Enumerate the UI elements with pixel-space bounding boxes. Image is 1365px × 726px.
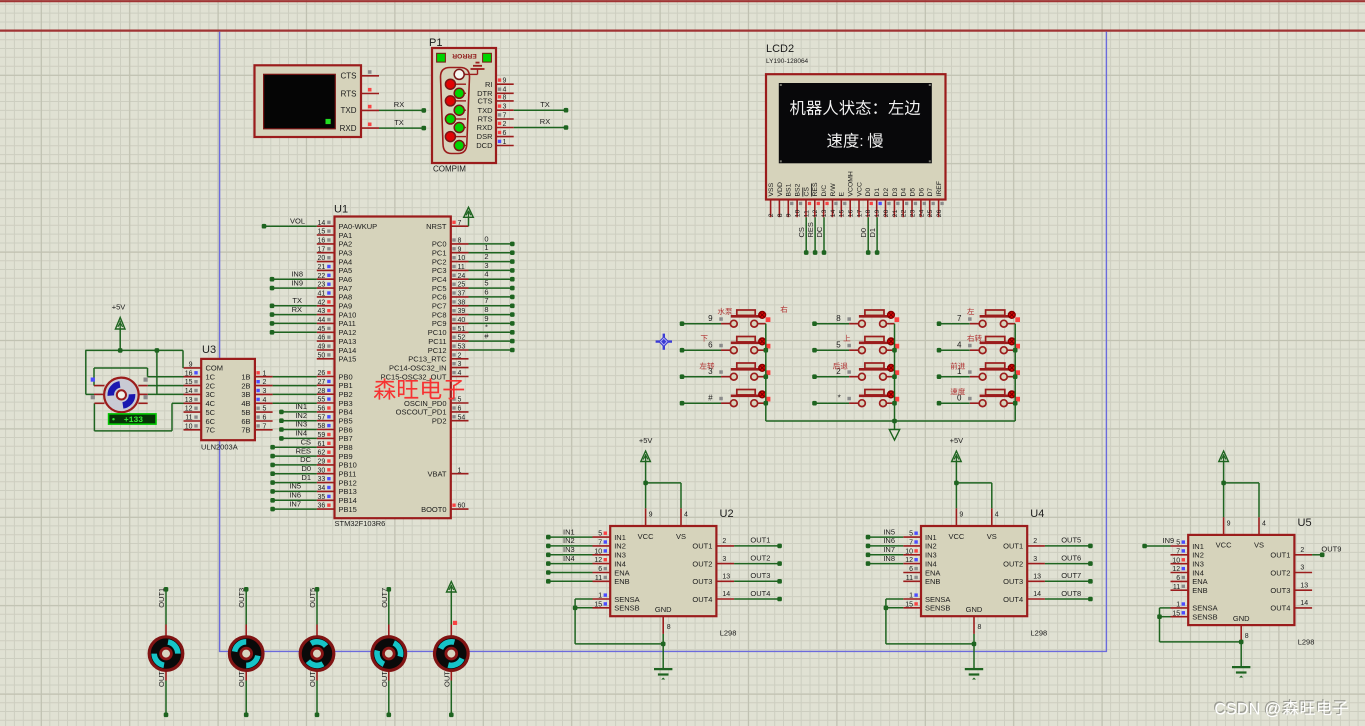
blue cursor crosshair — [656, 334, 672, 350]
svg-text:PA3: PA3 — [339, 249, 353, 258]
svg-text:IN2: IN2 — [295, 411, 307, 420]
svg-text:IN2: IN2 — [925, 542, 937, 551]
svg-text:OUT6: OUT6 — [1061, 553, 1081, 562]
svg-text:IN3: IN3 — [1192, 560, 1204, 569]
svg-text:4: 4 — [684, 512, 688, 519]
svg-text:PA12: PA12 — [339, 328, 357, 337]
svg-text:RXD: RXD — [340, 124, 357, 133]
wire U2 IN4 net IN4 — [546, 554, 593, 566]
wire U4 IN3 net IN7 — [866, 545, 904, 557]
U1 pin PA3 — [317, 246, 352, 257]
svg-text:PB8: PB8 — [339, 443, 353, 452]
svg-text:CSDN @: CSDN @ — [1214, 700, 1281, 718]
svg-text:4: 4 — [1262, 520, 1266, 527]
svg-text:4: 4 — [263, 397, 267, 404]
svg-text:10: 10 — [458, 255, 466, 262]
svg-text:IN4: IN4 — [295, 429, 307, 438]
U1 pin PC15-OSC32_OUT — [381, 370, 469, 381]
svg-text:54: 54 — [458, 414, 466, 421]
LCD2 pin BS2 — [795, 183, 803, 217]
wire U5 IN1 net IN9 — [1142, 536, 1174, 548]
LCD2 text line1 — [790, 100, 920, 115]
svg-text:LY190-128064: LY190-128064 — [766, 58, 809, 65]
svg-text:14: 14 — [318, 220, 326, 227]
U5 pin SENSA — [1171, 602, 1218, 613]
svg-text:3: 3 — [484, 261, 488, 270]
U5 pin IN4 — [1171, 566, 1204, 577]
U4 pin ENB — [903, 575, 940, 586]
svg-text:RX: RX — [394, 100, 404, 109]
svg-text:D3: D3 — [892, 188, 899, 197]
U4 pin IN4 — [903, 557, 936, 568]
svg-text:18: 18 — [865, 209, 872, 217]
svg-text:3: 3 — [263, 388, 267, 395]
svg-text:IN6: IN6 — [883, 536, 895, 545]
LCD2 pin E — [839, 192, 847, 218]
svg-text:2: 2 — [722, 538, 726, 545]
svg-text:PA11: PA11 — [339, 319, 356, 328]
svg-text:5C: 5C — [206, 408, 216, 417]
svg-text:CTS: CTS — [478, 97, 493, 106]
U1 pin PA4 — [317, 255, 352, 266]
svg-text:6B: 6B — [241, 417, 250, 426]
svg-text:DSR: DSR — [477, 132, 493, 141]
wire P1 RXD to net RX — [514, 117, 569, 130]
svg-text:U4: U4 — [1030, 508, 1044, 520]
svg-text:8: 8 — [777, 213, 784, 217]
U1 pin PC11 — [428, 335, 468, 346]
svg-text:13: 13 — [722, 574, 730, 581]
LCD2 pin D6 — [918, 188, 926, 218]
svg-text:PB10: PB10 — [339, 461, 357, 470]
U1 pin PB4 — [317, 406, 353, 417]
svg-text:TX: TX — [394, 118, 404, 127]
svg-text:OUT4: OUT4 — [1003, 595, 1023, 604]
svg-text:6: 6 — [263, 415, 267, 422]
U4 body L298 — [921, 526, 1027, 616]
svg-text:50: 50 — [318, 352, 326, 359]
U3 pin 4C — [184, 397, 216, 408]
svg-text:24: 24 — [918, 209, 925, 217]
wire LCD2 DC down — [815, 217, 827, 255]
svg-text:IN3: IN3 — [563, 545, 575, 554]
svg-text:1: 1 — [503, 139, 507, 146]
U1 pin OSCIN_PD0 — [404, 397, 469, 408]
U1 pin PC14-OSC32_IN — [389, 361, 469, 372]
wire LCD2 CS down — [797, 217, 809, 255]
svg-text:PC3: PC3 — [432, 266, 447, 275]
P1 DB9 connector outline — [441, 68, 470, 154]
svg-text:52: 52 — [458, 335, 466, 342]
wire U2 IN2 net IN2 — [546, 536, 593, 548]
svg-text:OUT3: OUT3 — [692, 577, 712, 586]
svg-text:2: 2 — [263, 379, 267, 386]
motor M5 — [431, 582, 472, 718]
svg-text:13: 13 — [1300, 582, 1308, 589]
svg-text:U1: U1 — [334, 204, 348, 216]
motor M3 — [293, 587, 340, 717]
svg-text:57: 57 — [318, 414, 326, 421]
P1 DB9 pin circle 1 — [454, 69, 466, 79]
svg-text:26: 26 — [936, 209, 943, 217]
svg-text:PD2: PD2 — [432, 417, 447, 426]
U1 pin PD2 — [432, 414, 469, 425]
P1 pin DSR — [477, 130, 514, 141]
wire U1 PB13 net IN5 — [270, 482, 317, 494]
LCD2 pin R/W — [830, 183, 838, 217]
U3 pin COM — [184, 362, 224, 373]
wire terminal RXD to net TX — [379, 118, 426, 131]
U1 pin PB9 — [317, 450, 353, 461]
svg-text:7: 7 — [458, 220, 462, 227]
svg-text:0: 0 — [484, 234, 488, 243]
svg-text:6: 6 — [1176, 575, 1180, 582]
svg-text:20: 20 — [883, 209, 890, 217]
svg-text:VS: VS — [676, 532, 686, 541]
wire U1 PA11 net — [270, 321, 317, 326]
svg-text:16: 16 — [318, 238, 326, 245]
svg-text:1: 1 — [1176, 602, 1180, 609]
svg-text:42: 42 — [318, 299, 326, 306]
LCD2 pin IREF — [936, 181, 944, 217]
U1 pin PC3 — [432, 264, 469, 275]
svg-text:7: 7 — [957, 314, 962, 323]
U3 pin 2C — [184, 379, 216, 390]
svg-text:PA14: PA14 — [339, 346, 357, 355]
wire U1 PB11 net D0 — [270, 464, 317, 476]
svg-text:PB15: PB15 — [339, 505, 357, 514]
svg-text:PB9: PB9 — [339, 452, 353, 461]
svg-text:L298: L298 — [1298, 637, 1315, 646]
keypad column 3 vertical wire — [1013, 324, 1018, 421]
U4 pin SENSB — [903, 601, 950, 612]
svg-text:2: 2 — [503, 121, 507, 128]
U5 pin OUT2 — [1270, 565, 1312, 578]
U5 +5V power terminal — [1219, 451, 1259, 517]
svg-text:17: 17 — [856, 209, 863, 217]
svg-text:+5V: +5V — [950, 436, 964, 445]
svg-text:PB7: PB7 — [339, 434, 353, 443]
keypad label 下 — [701, 335, 708, 341]
svg-text:ENA: ENA — [925, 568, 940, 577]
svg-text:5: 5 — [1176, 540, 1180, 547]
wire U2 SENS loop to ground — [573, 599, 663, 644]
svg-text:PA1: PA1 — [339, 231, 353, 240]
U1 pin PB14 — [317, 494, 357, 505]
wire U3 2B to U1 PB1 — [273, 385, 317, 387]
motor M1 — [149, 587, 183, 717]
U4 pin VS — [987, 508, 999, 541]
wire motor coil 4 to U3 4C — [94, 403, 183, 431]
P1 DB9 pin circle 3 — [454, 88, 466, 98]
svg-text:13: 13 — [1033, 574, 1041, 581]
U2 pin OUT3 — [692, 574, 734, 587]
svg-text:3: 3 — [1300, 565, 1304, 572]
svg-text:PC7: PC7 — [432, 302, 447, 311]
svg-text:11: 11 — [595, 575, 602, 582]
svg-text:23: 23 — [318, 282, 326, 289]
U1 pin PA15 — [317, 352, 356, 363]
svg-text:COMPIM: COMPIM — [433, 165, 466, 174]
svg-text:5B: 5B — [241, 408, 250, 417]
svg-text:CS: CS — [803, 187, 810, 197]
svg-text:25: 25 — [458, 282, 466, 289]
svg-text:U2: U2 — [720, 508, 734, 520]
svg-text:IN3: IN3 — [614, 551, 626, 560]
svg-text:9: 9 — [1227, 520, 1231, 527]
sheet border second red line — [0, 30, 1365, 32]
svg-text:11: 11 — [185, 415, 192, 422]
wire U1 PC6 to net 6 — [469, 287, 515, 299]
svg-text:9: 9 — [959, 512, 963, 519]
svg-text:IN1: IN1 — [1192, 542, 1204, 551]
LCD2 body — [766, 74, 946, 199]
svg-text:13: 13 — [821, 209, 828, 217]
U5 pin VS — [1254, 517, 1266, 550]
svg-text:PC14-OSC32_IN: PC14-OSC32_IN — [389, 363, 447, 372]
U1 pin PA9 — [317, 299, 352, 310]
svg-text:PC4: PC4 — [432, 275, 447, 284]
svg-text:PC2: PC2 — [432, 257, 447, 266]
svg-text:ULN2003A: ULN2003A — [201, 443, 238, 452]
svg-text:VSS: VSS — [768, 182, 775, 196]
svg-text:PB4: PB4 — [339, 408, 353, 417]
svg-text:5: 5 — [458, 397, 462, 404]
svg-text:OUT8: OUT8 — [1061, 589, 1081, 598]
svg-text:+5V: +5V — [112, 303, 126, 312]
svg-text:IN8: IN8 — [883, 554, 895, 563]
svg-text:PA8: PA8 — [339, 293, 353, 302]
svg-text:12: 12 — [594, 557, 602, 564]
svg-text:1: 1 — [598, 593, 602, 600]
svg-text:6: 6 — [909, 566, 913, 573]
svg-text:ENB: ENB — [1192, 586, 1207, 595]
svg-text:3C: 3C — [206, 390, 216, 399]
svg-text:SENSB: SENSB — [925, 604, 950, 613]
svg-text:7: 7 — [503, 112, 507, 119]
P1 pin DCD — [476, 139, 513, 150]
svg-text:GND: GND — [966, 605, 983, 614]
U1 pin NRST — [426, 220, 468, 231]
svg-text:25: 25 — [927, 209, 934, 217]
svg-text:15: 15 — [185, 379, 193, 386]
P1 pin CTS — [478, 94, 514, 105]
svg-text:22: 22 — [318, 273, 326, 280]
svg-text:RXD: RXD — [477, 123, 493, 132]
svg-text:PC0: PC0 — [432, 240, 447, 249]
U1 pin PB1 — [317, 379, 353, 390]
wire U1 PA10 RX — [270, 305, 317, 317]
keypad column 1 vertical wire — [764, 324, 769, 421]
U2 pin SENSA — [593, 593, 640, 604]
svg-text:9: 9 — [484, 314, 488, 323]
svg-text:3: 3 — [1033, 556, 1037, 563]
LCD2 pin CS — [803, 187, 811, 218]
wire U1 PB14 net IN6 — [270, 491, 317, 503]
U3 pin 7B — [241, 423, 272, 434]
U1 pin PB8 — [317, 441, 353, 452]
wire U1 PA9 TX — [270, 296, 317, 308]
U3 pin 5C — [184, 406, 216, 417]
svg-text:58: 58 — [318, 423, 326, 430]
svg-text:OUT3: OUT3 — [1270, 586, 1290, 595]
U3 pin 2B — [241, 379, 272, 390]
push button col1 row4 key # — [680, 390, 771, 407]
wire U1 PA0 VOL — [262, 216, 317, 228]
svg-text:14: 14 — [830, 209, 837, 217]
svg-text:2C: 2C — [206, 381, 216, 390]
svg-text:+5V: +5V — [639, 436, 653, 445]
svg-text:60: 60 — [458, 503, 466, 510]
U1 pin PB15 — [317, 503, 357, 514]
svg-text:D2: D2 — [883, 188, 890, 197]
keypad label 左转 — [700, 362, 715, 369]
svg-text:IN9: IN9 — [291, 278, 303, 287]
svg-text:OUT1: OUT1 — [1003, 542, 1023, 551]
wire U2 ENB net unnamed — [546, 579, 593, 584]
U1 pin PB10 — [317, 459, 357, 470]
wire U1 PB9 net RES — [270, 446, 317, 458]
CSDN watermark bottom right — [1213, 699, 1348, 718]
svg-text:DC: DC — [815, 226, 824, 237]
wire motor left loop — [86, 350, 94, 394]
U2 pin OUT1 — [692, 538, 734, 551]
svg-text:9: 9 — [503, 78, 507, 85]
push button col2 row1 key 8 — [812, 310, 899, 327]
wire U1 PA12 net — [270, 330, 317, 335]
U5 pin OUT1 — [1270, 547, 1312, 560]
wire terminal TXD to net RX — [379, 100, 426, 113]
U1 pin PB11 — [317, 467, 356, 478]
U2 pin IN4 — [593, 557, 626, 568]
svg-text:4: 4 — [484, 270, 488, 279]
svg-text:OUT3: OUT3 — [1003, 577, 1023, 586]
svg-text:34: 34 — [318, 485, 326, 492]
U2 body L298 — [610, 526, 716, 616]
svg-text:PA5: PA5 — [339, 266, 353, 275]
U1 pin PB7 — [317, 432, 353, 443]
wire U3 4B to U1 PB3 — [273, 402, 317, 404]
svg-text:15: 15 — [1172, 610, 1180, 617]
svg-text:OUT4: OUT4 — [750, 589, 770, 598]
svg-text:11: 11 — [803, 210, 810, 217]
svg-text:11: 11 — [906, 575, 913, 582]
svg-text:OUT1: OUT1 — [1270, 551, 1290, 560]
terminal pin TXD — [341, 105, 380, 115]
P1 DB9 pin circle 6 — [445, 114, 466, 124]
keypad bottom common wire — [766, 419, 1015, 424]
U3 body ULN2003A — [201, 359, 255, 440]
svg-text:2: 2 — [1300, 547, 1304, 554]
svg-text:PA2: PA2 — [339, 240, 353, 249]
svg-text:IN3: IN3 — [295, 420, 307, 429]
wire U4 OUT2 net OUT6 — [1045, 553, 1093, 565]
wire U1 PC1 to net 1 — [469, 243, 515, 255]
U3 pin 1C — [184, 370, 216, 381]
svg-text:8: 8 — [458, 238, 462, 245]
svg-text:L298: L298 — [720, 629, 737, 638]
svg-text:7: 7 — [484, 296, 488, 305]
U5 pin ENB — [1171, 584, 1208, 595]
wire U1 PB15 net IN7 — [270, 499, 317, 511]
U1 pin PB12 — [317, 476, 357, 487]
svg-text:PC10: PC10 — [428, 328, 447, 337]
U4 pin OUT3 — [1003, 574, 1045, 587]
svg-text:49: 49 — [318, 344, 326, 351]
svg-text:PA0-WKUP: PA0-WKUP — [339, 222, 378, 231]
svg-text:8: 8 — [667, 624, 671, 631]
svg-text:4: 4 — [458, 370, 462, 377]
svg-text:9: 9 — [649, 512, 653, 519]
U1 pin PC4 — [432, 273, 469, 284]
svg-text:IN9: IN9 — [1163, 536, 1175, 545]
U1 pin PC8 — [432, 308, 469, 319]
svg-text:CS: CS — [797, 227, 806, 237]
push button col1 row1 key 9 — [680, 310, 771, 327]
svg-text:3: 3 — [458, 361, 462, 368]
svg-text:44: 44 — [318, 317, 326, 324]
wire U2 OUT2 net OUT2 — [734, 553, 782, 565]
svg-text:D6: D6 — [918, 188, 925, 197]
svg-text:53: 53 — [458, 344, 466, 351]
svg-text:IN1: IN1 — [614, 533, 626, 542]
keypad label 后退 — [833, 362, 848, 369]
svg-text:PA9: PA9 — [339, 302, 353, 311]
U1 pin PC9 — [432, 317, 469, 328]
svg-text:9: 9 — [189, 362, 193, 369]
wire U4 OUT4 net OUT8 — [1045, 589, 1093, 602]
svg-text:8: 8 — [1245, 633, 1249, 640]
svg-text:10: 10 — [795, 209, 802, 217]
svg-text:OUT2: OUT2 — [1270, 568, 1290, 577]
svg-text:U5: U5 — [1298, 517, 1312, 529]
svg-text:5: 5 — [263, 406, 267, 413]
svg-text:19: 19 — [874, 209, 881, 217]
svg-text:IN5: IN5 — [289, 482, 301, 491]
U1 pin PC5 — [432, 282, 469, 293]
svg-text:12: 12 — [1172, 566, 1180, 573]
svg-text:4: 4 — [995, 512, 999, 519]
svg-text:9: 9 — [458, 246, 462, 253]
svg-text:PC6: PC6 — [432, 293, 447, 302]
svg-text:CTS: CTS — [341, 72, 357, 81]
LCD2 screen — [779, 83, 932, 163]
svg-text:NRST: NRST — [426, 222, 447, 231]
svg-text:RES: RES — [296, 446, 311, 455]
svg-text:23: 23 — [909, 209, 916, 217]
svg-text:VOL: VOL — [290, 216, 305, 225]
U3 pin 6B — [241, 415, 272, 426]
svg-text:*: * — [485, 323, 488, 332]
svg-text:PA15: PA15 — [339, 355, 357, 364]
svg-text:COM: COM — [206, 364, 224, 373]
U1 body STM32F103R6 — [335, 217, 451, 519]
svg-text:ENB: ENB — [925, 577, 940, 586]
svg-text:IN8: IN8 — [291, 269, 303, 278]
svg-text:OUT1: OUT1 — [157, 588, 166, 608]
U1 pin OSCOUT_PD1 — [396, 406, 469, 417]
svg-text:5: 5 — [909, 531, 913, 538]
svg-text:2: 2 — [458, 352, 462, 359]
svg-text:RX: RX — [292, 305, 302, 314]
svg-text:4C: 4C — [206, 399, 216, 408]
svg-text:62: 62 — [318, 450, 326, 457]
U1 pin PA0-WKUP — [317, 220, 377, 231]
P1 DB9 pin circle 9 — [454, 141, 466, 151]
LCD2 pin RES — [812, 182, 820, 217]
U4 pin ENA — [903, 566, 940, 577]
svg-text:10: 10 — [1172, 557, 1180, 564]
